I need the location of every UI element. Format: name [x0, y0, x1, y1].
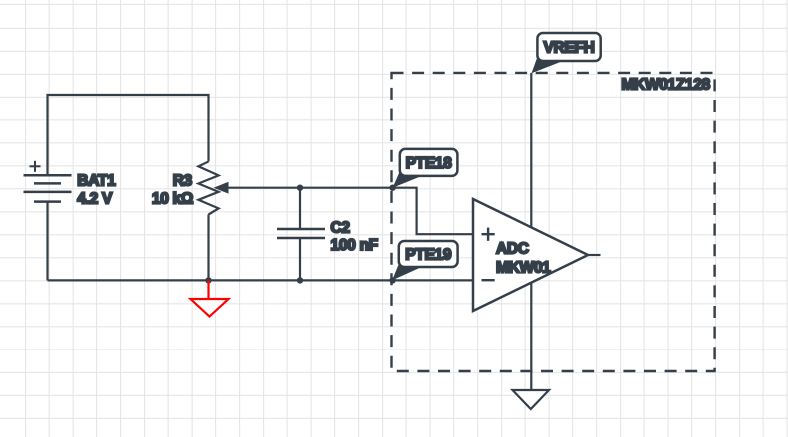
ground red (battery negative): [191, 280, 229, 316]
module boundary MKW01Z128 dashed box: [392, 73, 715, 371]
svg-text:MKW01Z128: MKW01Z128: [621, 76, 710, 93]
callout PTE19: [392, 241, 457, 280]
op-amp U1 ADC MKW01: [473, 199, 588, 311]
ground (VREFL) dark: [513, 390, 550, 409]
svg-text:BAT1: BAT1: [77, 172, 116, 189]
wire R3 wiper to PTE18 node: [214, 182, 393, 194]
node junction R3 bottom: [205, 277, 211, 283]
svg-text:PTE19: PTE19: [405, 247, 452, 264]
callout PTE18: [393, 149, 458, 188]
battery BAT1: [24, 161, 72, 202]
wire battery bottom to ground rail: [46, 202, 48, 281]
capacitor C2: [277, 188, 325, 281]
node junction C2 top: [297, 185, 303, 191]
wire PTE18 node to ADC plus input: [393, 188, 473, 235]
svg-text:MKW01: MKW01: [496, 260, 551, 277]
label R3 10 kOhm: [152, 172, 193, 207]
wire battery top to R3 top: [48, 95, 209, 175]
wire ADC output stub: [588, 254, 601, 256]
svg-text:VREFH: VREFH: [543, 40, 594, 57]
node junction C2 bottom: [297, 277, 303, 283]
node junction PTE18: [389, 185, 395, 191]
svg-text:C2: C2: [331, 219, 350, 236]
callout VREFH: [532, 33, 601, 73]
svg-text:10 kΩ: 10 kΩ: [152, 190, 193, 207]
svg-text:4.2 V: 4.2 V: [77, 190, 113, 207]
label MKW01Z128: [621, 76, 710, 93]
label BAT1 4.2 V: [77, 172, 116, 207]
wire VREFH vertical: [530, 73, 532, 390]
svg-text:R3: R3: [173, 172, 193, 189]
resistor R3 (potentiometer): [198, 162, 218, 281]
wire bottom rail: [48, 279, 474, 281]
svg-text:100 nF: 100 nF: [331, 237, 378, 254]
svg-text:ADC: ADC: [496, 240, 529, 257]
label C2 100 nF: [331, 219, 378, 254]
node junction PTE19: [389, 277, 395, 283]
svg-text:PTE18: PTE18: [406, 155, 453, 172]
